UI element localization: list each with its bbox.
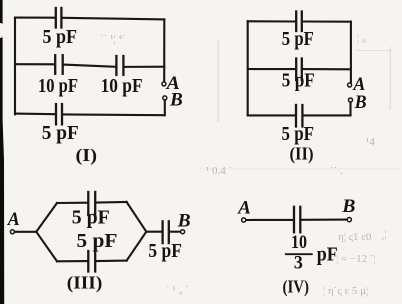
capacitor 5pF (II middle) <box>296 59 302 81</box>
wire: circuit I middle branch center <box>64 65 116 67</box>
svg-text:˙˙ .: ˙˙ . <box>330 165 343 177</box>
svg-text:¹4: ¹4 <box>366 136 375 148</box>
label fraction bar (IV) <box>285 253 313 255</box>
svg-text:B: B <box>341 197 355 217</box>
svg-text:pF: pF <box>317 243 338 265</box>
svg-text:10 pF: 10 pF <box>101 75 143 97</box>
wire: circuit I top branch left <box>15 17 55 19</box>
wire: circuit III lower-left diagonal <box>36 232 57 261</box>
svg-text:(IV): (IV) <box>283 277 310 298</box>
svg-text:η¦ ς1 ε0: η¦ ς1 ε0 <box>338 231 372 243</box>
node A terminal (I) <box>162 82 166 86</box>
svg-text:¦ ₆: ¦ ₆ <box>357 32 366 44</box>
faint dotted divider line right <box>390 47 391 110</box>
capacitor 5pF (II top) <box>296 12 302 32</box>
scan artifacts: faint bleed-through <box>100 32 400 297</box>
svg-text:5 pF: 5 pF <box>282 69 315 91</box>
wire: circuit IV capacitor to terminal B <box>301 219 346 221</box>
svg-text:5 pF: 5 pF <box>72 206 110 228</box>
capacitor 5pF (III series) <box>163 221 169 243</box>
capacitor 5pF (II bottom) <box>296 105 302 127</box>
svg-text:5 pF: 5 pF <box>43 26 78 48</box>
svg-text:A: A <box>352 75 365 95</box>
svg-text:A: A <box>7 210 20 230</box>
node B terminal (I) <box>163 96 167 100</box>
wire: circuit III top branch right <box>96 201 127 204</box>
wire: circuit I middle branch left <box>15 63 54 65</box>
capacitor 10pF (I middle right) <box>116 56 123 75</box>
wire: circuit II top branch right <box>303 20 351 22</box>
svg-text:10: 10 <box>291 232 307 253</box>
svg-text:3: 3 <box>294 253 303 274</box>
svg-text:(I): (I) <box>76 145 98 166</box>
wire: circuit IV terminal A to capacitor <box>247 219 294 221</box>
wire: circuit I terminal B to bottom <box>164 100 166 115</box>
svg-text:¦ = −12 ˙¦: ¦ = −12 ˙¦ <box>336 253 376 265</box>
wire: circuit III terminal A lead <box>15 231 36 233</box>
svg-text:¸¦: ¸¦ <box>381 228 387 240</box>
node B terminal (IV) <box>347 218 351 222</box>
wire: circuit III series capacitor to terminal B <box>170 231 180 233</box>
svg-text:¹ 0.4 ˙: ¹ 0.4 ˙ <box>206 165 232 177</box>
wire: circuit II terminal B to bottom <box>349 102 351 115</box>
svg-text:¦ η˙ς ε 5 μ¦: ¦ η˙ς ε 5 μ¦ <box>323 285 368 297</box>
wire: circuit II left vertical bus <box>247 21 249 115</box>
wire: circuit I top branch right <box>62 18 164 20</box>
svg-text:˙ ¹ ₄ ˙: ˙ ¹ ₄ ˙ <box>166 284 189 296</box>
wire: circuit I middle branch right <box>125 66 165 68</box>
scan edge black bar <box>0 0 4 304</box>
node A terminal (II) <box>348 83 352 87</box>
capacitor 10/3 pF (IV) <box>294 207 300 233</box>
node B terminal (II) <box>349 98 353 102</box>
svg-text:10 pF: 10 pF <box>38 75 78 97</box>
wire: circuit I bottom branch right <box>63 113 165 116</box>
svg-text:5 pF: 5 pF <box>77 230 118 252</box>
node A terminal (IV) <box>242 218 246 222</box>
node A terminal (III) <box>10 230 14 234</box>
svg-text:B: B <box>177 211 191 231</box>
wire: circuit III top branch left <box>57 202 87 204</box>
svg-text:5 pF: 5 pF <box>282 28 314 50</box>
wire: circuit II right vertical to terminal A <box>350 22 352 82</box>
faint dotted divider line left <box>218 40 219 122</box>
wire: circuit III right vertex to series capacitor <box>146 231 161 233</box>
capacitor 5pF (III top) <box>88 192 95 215</box>
wire: circuit II middle branch left <box>248 68 296 70</box>
capacitor 5pF (I top) <box>56 8 62 28</box>
svg-text:(II): (II) <box>290 144 314 165</box>
node B terminal (III) <box>181 230 185 234</box>
capacitor 10pF (I middle left) <box>55 55 63 74</box>
svg-text:˙˙ ¹¦ ⁴˙: ˙˙ ¹¦ ⁴˙ <box>100 33 126 45</box>
wire: circuit I left vertical bus <box>14 18 16 115</box>
wire: circuit III bottom branch right <box>96 260 127 262</box>
capacitor 5pF (I bottom) <box>56 104 62 124</box>
svg-text:B: B <box>169 91 183 111</box>
wire: circuit III upper-left diagonal <box>36 203 57 232</box>
wire: circuit II middle branch right <box>303 68 351 70</box>
wire: circuit III bottom branch left <box>57 260 87 262</box>
svg-text:5 pF: 5 pF <box>282 123 315 145</box>
wire: circuit II bottom branch right <box>303 114 351 116</box>
wire: circuit II bottom branch left <box>248 114 295 116</box>
capacitor 5pF (III bottom) <box>88 251 95 272</box>
wire: circuit III lower-right diagonal <box>127 232 147 261</box>
svg-text:B: B <box>354 93 367 113</box>
svg-text:(III): (III) <box>67 273 103 294</box>
svg-text:5 pF: 5 pF <box>148 240 182 262</box>
wire: circuit I bottom branch left <box>15 113 55 116</box>
wire: circuit III upper-right diagonal <box>127 202 147 232</box>
svg-text:A: A <box>237 199 251 219</box>
wire: circuit II top branch left <box>248 20 296 22</box>
wire: circuit I right vertical to terminal A <box>163 19 165 81</box>
svg-text:5 pF: 5 pF <box>42 122 79 144</box>
